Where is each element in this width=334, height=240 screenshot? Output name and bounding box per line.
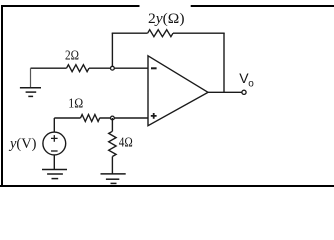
- ground (under 4ohm): [101, 174, 126, 184]
- wire: inverting input left segment: [31, 67, 67, 69]
- output terminal Vo (open circle): [242, 90, 246, 94]
- wire: feedback top left segment: [112, 32, 148, 34]
- ground (under source): [42, 170, 67, 179]
- op-amp U1 triangle: [148, 56, 208, 126]
- source minus sign: [51, 150, 58, 152]
- wire: output from apex: [208, 91, 242, 93]
- op-amp non-inverting input plus sign: [151, 113, 157, 119]
- wire: source bottom stem: [53, 155, 55, 170]
- wire: feedback top right segment: [173, 32, 225, 34]
- wire: non-inverting input right segment (through node to op-amp): [100, 117, 149, 119]
- resistor 2y(ohm) zigzag: [148, 30, 173, 37]
- node A (inverting input junction): [111, 66, 115, 70]
- svg-text:2y(Ω): 2y(Ω): [148, 11, 185, 27]
- svg-text:2Ω: 2Ω: [65, 48, 79, 63]
- resistor R 2ohm zigzag: [67, 65, 90, 72]
- wire: drop to left ground: [30, 68, 32, 87]
- wire: feedback right vertical (down to output): [223, 33, 225, 92]
- svg-text:y(V): y(V): [8, 136, 36, 152]
- border frame bottom line: [0, 185, 334, 187]
- border frame top line (left segment): [1, 5, 140, 7]
- voltage source y(V) circle: [43, 132, 66, 155]
- wire: feedback left vertical (node to top wire): [111, 33, 113, 68]
- resistor R 1ohm zigzag: [81, 115, 100, 122]
- wire: non-inverting input left segment: [54, 117, 80, 119]
- wire: 4ohm to ground: [111, 157, 113, 174]
- ground (left, at 2ohm input): [20, 88, 41, 97]
- wire: node B down to 4ohm: [111, 118, 113, 131]
- wire: source top vertical: [53, 118, 55, 132]
- node B (non-inverting input junction): [111, 116, 115, 120]
- svg-text:4Ω: 4Ω: [119, 135, 133, 150]
- svg-text:o: o: [248, 79, 254, 90]
- op-amp inverting input minus sign: [151, 67, 157, 69]
- svg-text:1Ω: 1Ω: [68, 97, 83, 112]
- border frame left line: [1, 5, 3, 187]
- source plus sign: [51, 135, 58, 142]
- wire: inverting input right segment (through node to op-amp): [89, 67, 148, 69]
- border frame top line (right segment): [191, 5, 334, 7]
- resistor R 4ohm vertical zigzag: [109, 131, 116, 156]
